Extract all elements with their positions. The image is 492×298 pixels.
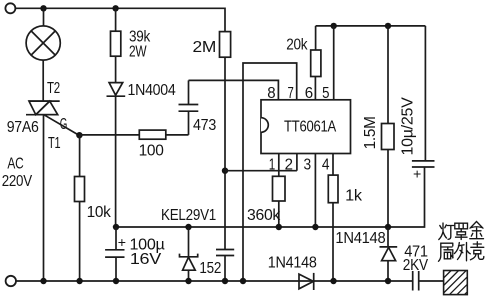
svg-text:AC: AC <box>7 156 23 173</box>
svg-text:1N4148: 1N4148 <box>335 230 385 247</box>
node rail-100u <box>113 278 119 284</box>
char shu <box>439 243 454 261</box>
svg-text:473: 473 <box>193 117 216 134</box>
capacitor 100u16V <box>105 227 124 281</box>
wire pin5 <box>333 26 335 100</box>
svg-text:360k: 360k <box>247 207 281 224</box>
resistor 1k <box>328 175 338 281</box>
svg-text:5: 5 <box>322 85 329 102</box>
terminal top-left <box>5 3 15 13</box>
wire bottom rail <box>16 280 413 282</box>
wire top right rail <box>316 25 426 27</box>
svg-text:3: 3 <box>304 156 312 173</box>
svg-text:1k: 1k <box>345 188 363 205</box>
node bus-1N4148 <box>385 224 391 230</box>
svg-text:1N4004: 1N4004 <box>128 82 176 99</box>
svg-text:G: G <box>60 116 67 133</box>
diode zener 152 <box>180 227 198 281</box>
char zhao <box>455 223 468 239</box>
char jin <box>470 222 484 239</box>
svg-text:+: + <box>118 234 126 250</box>
diode 1N4148 vertical <box>380 227 398 281</box>
char deng <box>439 223 454 240</box>
svg-text:16V: 16V <box>130 251 162 268</box>
node rail-10k <box>76 278 82 284</box>
node 2M-pin1 <box>222 168 228 174</box>
wire pin3 <box>314 154 316 228</box>
svg-text:1.5M: 1.5M <box>362 116 379 149</box>
resistor 360k <box>273 176 286 227</box>
svg-text:100: 100 <box>139 143 164 160</box>
terminal bottom-left <box>6 276 16 286</box>
svg-text:KEL29V1: KEL29V1 <box>161 207 216 224</box>
wire 473 to pin8 <box>189 80 279 99</box>
wire pin7 <box>243 63 297 281</box>
diode 1N4148 horizontal <box>299 273 314 290</box>
node bus-100u <box>113 224 119 230</box>
svg-text:10k: 10k <box>87 204 112 221</box>
capacitor 10u25V <box>388 26 435 227</box>
svg-text:8: 8 <box>267 85 275 102</box>
node bus-360k <box>276 224 282 230</box>
node rail-152 <box>185 278 191 284</box>
node bus-pin3 <box>312 224 318 230</box>
node bus-152 <box>185 224 191 230</box>
label lamp-shell chinese <box>439 222 484 262</box>
svg-text:2KV: 2KV <box>403 257 429 274</box>
node 1.5M-top <box>385 23 391 29</box>
lamp EL <box>26 8 60 101</box>
node rail-lamp <box>40 278 46 284</box>
svg-text:220V: 220V <box>2 173 33 190</box>
node top-39k <box>112 5 118 11</box>
wire vss bus <box>116 226 388 228</box>
svg-text:2M: 2M <box>193 39 217 56</box>
triac 97A6 <box>26 101 79 281</box>
char wai <box>455 243 471 261</box>
svg-text:T1: T1 <box>48 135 61 152</box>
svg-text:+: + <box>413 166 421 182</box>
svg-text:10µ/25V: 10µ/25V <box>400 97 417 156</box>
resistor 2M <box>220 32 231 250</box>
wire pin6 <box>314 77 316 100</box>
svg-text:2W: 2W <box>129 44 147 61</box>
capacitor 471 2KV <box>413 271 444 291</box>
resistor 10k <box>75 135 85 281</box>
node rail-cap225 <box>222 278 228 284</box>
svg-text:152: 152 <box>199 260 221 277</box>
capacitor C-2M bottom <box>216 250 234 282</box>
resistor 39k 2W <box>111 8 121 82</box>
resistor 1.5M <box>382 26 395 227</box>
svg-text:6: 6 <box>305 85 313 102</box>
svg-text:1N4148: 1N4148 <box>268 255 317 272</box>
node rail-1k <box>330 278 336 284</box>
resistor 100 <box>139 130 188 139</box>
node rail-pin7 <box>240 278 246 284</box>
svg-text:20k: 20k <box>286 37 308 54</box>
node gate G <box>76 132 82 138</box>
metal shell hatched box <box>444 271 468 295</box>
wire pin1 <box>278 154 280 177</box>
wire pin1-pin2 tie <box>225 170 297 172</box>
svg-text:T2: T2 <box>47 80 60 97</box>
wire gate to R100 <box>79 134 139 136</box>
svg-text:1: 1 <box>269 156 276 173</box>
resistor 20k <box>311 26 321 77</box>
svg-text:2: 2 <box>285 156 293 173</box>
svg-text:7: 7 <box>288 85 294 102</box>
svg-text:4: 4 <box>322 156 330 173</box>
wire top rail <box>16 8 226 31</box>
node top-lamp <box>40 5 46 11</box>
char ke <box>471 242 484 260</box>
node rail-1N4148 <box>385 278 391 284</box>
op IC TT6061A <box>261 100 351 154</box>
capacitor 473 <box>179 80 199 134</box>
wire pin4 <box>332 154 334 176</box>
diode 1N4004 <box>107 83 126 227</box>
wire pin2 stub <box>296 154 298 171</box>
node pin5-top <box>331 23 337 29</box>
svg-text:TT6061A: TT6061A <box>284 119 337 136</box>
svg-text:97A6: 97A6 <box>7 119 39 136</box>
